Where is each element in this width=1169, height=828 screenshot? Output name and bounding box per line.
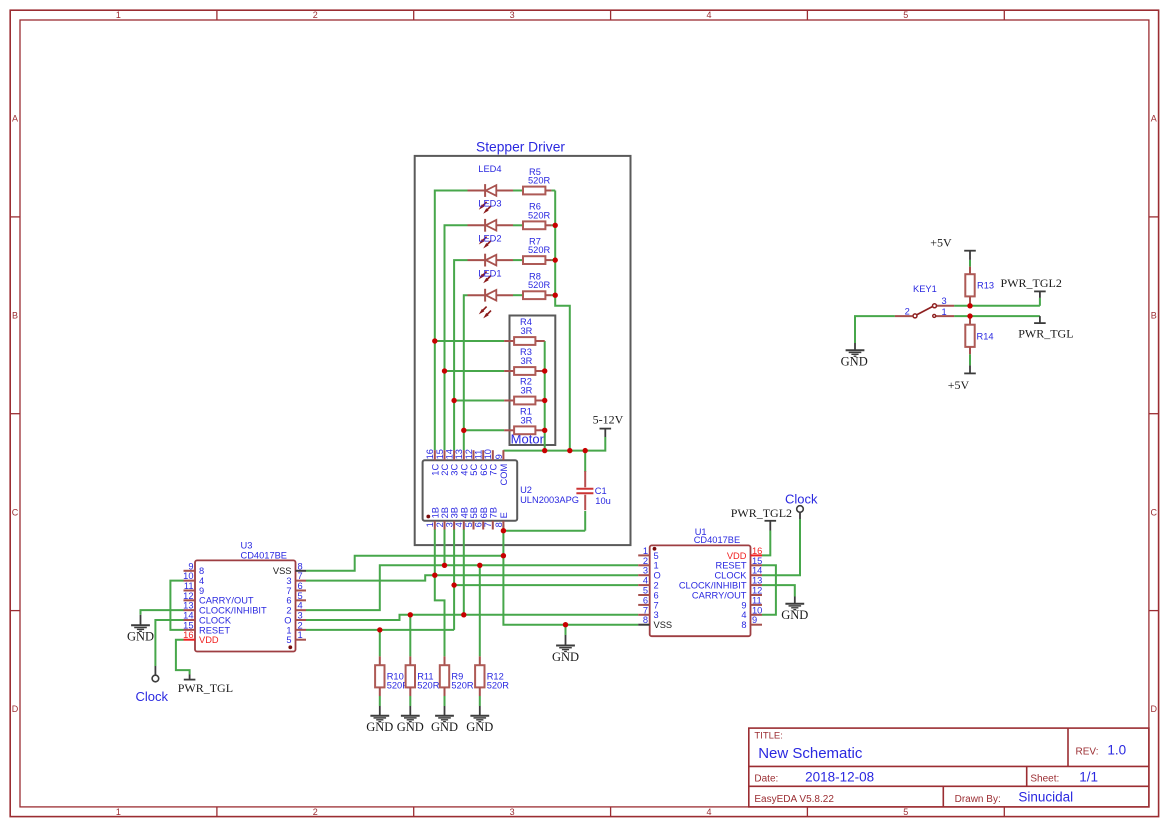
svg-text:6: 6 (474, 522, 484, 527)
svg-text:7B: 7B (488, 507, 498, 518)
svg-text:COM: COM (499, 464, 509, 486)
svg-text:7: 7 (298, 571, 303, 581)
svg-text:R13: R13 (977, 281, 994, 291)
svg-text:11: 11 (474, 450, 484, 460)
svg-text:15: 15 (183, 620, 193, 630)
svg-text:7: 7 (286, 586, 291, 596)
svg-text:LED3: LED3 (478, 199, 501, 209)
svg-text:2: 2 (435, 522, 445, 527)
svg-text:10: 10 (183, 571, 193, 581)
svg-text:8: 8 (494, 522, 504, 527)
svg-text:6: 6 (298, 581, 303, 591)
svg-text:EasyEDA V5.8.22: EasyEDA V5.8.22 (754, 794, 834, 805)
svg-text:7C: 7C (488, 464, 498, 476)
svg-text:5: 5 (298, 591, 303, 601)
svg-text:2018-12-08: 2018-12-08 (805, 769, 874, 784)
svg-text:PWR_TGL: PWR_TGL (178, 681, 233, 695)
svg-text:520R: 520R (487, 681, 510, 691)
svg-text:16: 16 (183, 630, 193, 640)
svg-text:1: 1 (298, 630, 303, 640)
svg-text:14: 14 (183, 611, 193, 621)
svg-text:520R: 520R (451, 681, 474, 691)
svg-text:15: 15 (435, 449, 445, 459)
svg-text:VSS: VSS (654, 620, 673, 630)
svg-text:2: 2 (654, 581, 659, 591)
svg-text:1: 1 (286, 625, 291, 635)
svg-text:5: 5 (903, 10, 908, 20)
svg-text:U3: U3 (241, 540, 253, 550)
svg-text:4: 4 (199, 576, 204, 586)
svg-text:LED2: LED2 (478, 233, 501, 243)
svg-text:13: 13 (454, 449, 464, 459)
svg-text:KEY1: KEY1 (913, 284, 937, 294)
svg-text:U2: U2 (520, 485, 532, 495)
svg-text:11: 11 (752, 595, 762, 605)
svg-text:+5V: +5V (930, 235, 952, 249)
svg-text:+5V: +5V (948, 378, 970, 392)
svg-text:4: 4 (454, 522, 464, 527)
svg-text:10u: 10u (595, 496, 611, 506)
svg-text:O: O (654, 571, 661, 581)
svg-text:520R: 520R (528, 176, 551, 186)
svg-text:CD4017BE: CD4017BE (241, 550, 288, 560)
svg-text:12: 12 (752, 586, 762, 596)
svg-text:9: 9 (199, 586, 204, 596)
svg-text:ULN2003APG: ULN2003APG (520, 495, 579, 505)
svg-text:O: O (284, 615, 291, 625)
svg-text:3: 3 (654, 610, 659, 620)
svg-text:3R: 3R (521, 386, 533, 396)
svg-text:12: 12 (464, 449, 474, 459)
svg-text:3: 3 (445, 522, 455, 527)
svg-text:RESET: RESET (199, 625, 230, 635)
svg-text:1: 1 (643, 546, 648, 556)
svg-text:GND: GND (366, 720, 393, 734)
svg-text:PWR_TGL: PWR_TGL (1018, 326, 1073, 340)
svg-text:R14: R14 (977, 331, 994, 341)
svg-text:B: B (12, 310, 18, 320)
svg-text:Sheet:: Sheet: (1030, 773, 1059, 784)
svg-text:Clock: Clock (785, 492, 818, 507)
svg-text:6: 6 (286, 596, 291, 606)
svg-text:1C: 1C (430, 464, 440, 476)
svg-text:1: 1 (116, 10, 121, 20)
svg-text:GND: GND (552, 650, 579, 664)
svg-text:D: D (12, 704, 19, 714)
svg-text:3R: 3R (521, 326, 533, 336)
svg-text:CD4017BE: CD4017BE (694, 535, 741, 545)
svg-text:13: 13 (183, 601, 193, 611)
svg-text:3: 3 (298, 611, 303, 621)
svg-text:3: 3 (942, 296, 947, 306)
svg-text:GND: GND (127, 630, 154, 644)
svg-text:Date:: Date: (754, 773, 778, 784)
svg-text:10: 10 (483, 449, 493, 459)
svg-text:6C: 6C (479, 464, 489, 476)
svg-text:LED1: LED1 (478, 269, 501, 279)
svg-text:2: 2 (286, 606, 291, 616)
svg-text:CLOCK: CLOCK (714, 571, 747, 581)
svg-text:4: 4 (643, 576, 648, 586)
svg-text:2B: 2B (440, 507, 450, 518)
svg-text:New Schematic: New Schematic (758, 745, 863, 762)
svg-text:5C: 5C (469, 464, 479, 476)
svg-text:520R: 520R (528, 210, 551, 220)
svg-text:5: 5 (643, 586, 648, 596)
svg-text:7: 7 (654, 600, 659, 610)
svg-text:4B: 4B (459, 507, 469, 518)
svg-text:5: 5 (286, 635, 291, 645)
svg-text:GND: GND (466, 720, 493, 734)
svg-text:14: 14 (445, 449, 455, 459)
svg-text:12: 12 (183, 591, 193, 601)
svg-text:3R: 3R (521, 356, 533, 366)
svg-text:4: 4 (706, 10, 711, 20)
svg-text:C1: C1 (595, 486, 607, 496)
svg-text:CARRY/OUT: CARRY/OUT (199, 596, 254, 606)
svg-text:9: 9 (188, 561, 193, 571)
svg-text:2: 2 (313, 10, 318, 20)
svg-text:D: D (1150, 704, 1157, 714)
svg-text:CLOCK/INHIBIT: CLOCK/INHIBIT (199, 606, 267, 616)
svg-text:4: 4 (706, 807, 711, 817)
svg-text:GND: GND (431, 720, 458, 734)
svg-text:VSS: VSS (273, 566, 292, 576)
svg-text:3C: 3C (450, 464, 460, 476)
svg-text:4: 4 (298, 601, 303, 611)
svg-text:2: 2 (643, 556, 648, 566)
svg-text:VDD: VDD (727, 551, 747, 561)
svg-text:PWR_TGL2: PWR_TGL2 (1001, 276, 1062, 290)
svg-text:520R: 520R (528, 280, 551, 290)
svg-text:1.0: 1.0 (1107, 742, 1126, 757)
svg-text:A: A (1151, 114, 1157, 124)
svg-text:3B: 3B (450, 507, 460, 518)
svg-text:4: 4 (741, 610, 746, 620)
svg-text:11: 11 (184, 581, 194, 591)
svg-text:5: 5 (654, 551, 659, 561)
svg-text:9: 9 (494, 454, 504, 459)
svg-text:520R: 520R (528, 245, 551, 255)
svg-text:13: 13 (752, 576, 762, 586)
svg-text:2C: 2C (440, 464, 450, 476)
svg-text:Clock: Clock (136, 689, 169, 704)
svg-text:1B: 1B (430, 507, 440, 518)
svg-text:CLOCK: CLOCK (199, 615, 232, 625)
svg-text:PWR_TGL2: PWR_TGL2 (731, 506, 792, 520)
svg-text:2: 2 (313, 807, 318, 817)
svg-text:Stepper Driver: Stepper Driver (476, 140, 565, 155)
svg-text:8: 8 (741, 620, 746, 630)
svg-text:Sinucidal: Sinucidal (1018, 789, 1073, 804)
svg-text:15: 15 (752, 556, 762, 566)
svg-text:C: C (1150, 507, 1157, 517)
svg-text:6: 6 (643, 595, 648, 605)
svg-text:CARRY/OUT: CARRY/OUT (692, 590, 747, 600)
svg-text:14: 14 (752, 566, 762, 576)
svg-text:520R: 520R (417, 681, 440, 691)
svg-text:3: 3 (510, 10, 515, 20)
svg-text:RESET: RESET (716, 561, 747, 571)
svg-text:LED4: LED4 (478, 164, 501, 174)
svg-text:Drawn By:: Drawn By: (955, 794, 1001, 805)
svg-text:2: 2 (905, 306, 910, 316)
svg-text:A: A (12, 114, 18, 124)
svg-text:3R: 3R (521, 415, 533, 425)
svg-text:9: 9 (752, 615, 757, 625)
svg-text:4C: 4C (459, 464, 469, 476)
svg-text:6B: 6B (479, 507, 489, 518)
svg-text:TITLE:: TITLE: (754, 730, 783, 741)
svg-text:5: 5 (903, 807, 908, 817)
svg-text:10: 10 (752, 605, 762, 615)
svg-text:6: 6 (654, 590, 659, 600)
svg-text:1/1: 1/1 (1079, 769, 1098, 784)
svg-text:7: 7 (483, 522, 493, 527)
svg-text:16: 16 (425, 449, 435, 459)
svg-text:1: 1 (425, 522, 435, 527)
svg-text:8: 8 (298, 561, 303, 571)
svg-text:3: 3 (286, 576, 291, 586)
svg-text:B: B (1151, 310, 1157, 320)
svg-text:1: 1 (654, 561, 659, 571)
svg-text:REV:: REV: (1076, 746, 1099, 757)
svg-text:16: 16 (752, 546, 762, 556)
svg-text:5: 5 (464, 522, 474, 527)
svg-text:9: 9 (741, 600, 746, 610)
svg-text:1: 1 (942, 307, 947, 317)
svg-text:1: 1 (116, 807, 121, 817)
svg-text:C: C (12, 507, 19, 517)
svg-text:7: 7 (643, 605, 648, 615)
svg-text:E: E (499, 512, 509, 518)
svg-text:3: 3 (643, 566, 648, 576)
svg-text:2: 2 (298, 620, 303, 630)
svg-text:CLOCK/INHIBIT: CLOCK/INHIBIT (679, 581, 747, 591)
svg-text:8: 8 (199, 566, 204, 576)
svg-text:GND: GND (397, 720, 424, 734)
svg-text:5B: 5B (469, 507, 479, 518)
svg-text:GND: GND (781, 608, 808, 622)
svg-text:VDD: VDD (199, 635, 219, 645)
svg-text:GND: GND (841, 355, 868, 369)
svg-text:8: 8 (643, 615, 648, 625)
svg-text:5-12V: 5-12V (593, 413, 624, 427)
svg-text:3: 3 (510, 807, 515, 817)
